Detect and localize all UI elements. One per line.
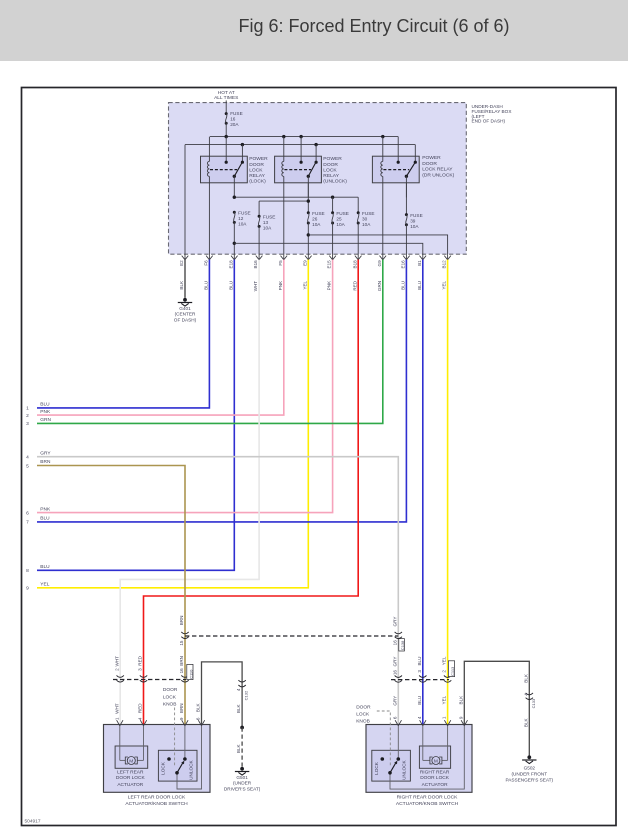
fuse 25 10A xyxy=(331,211,349,227)
svg-text:BRN: BRN xyxy=(179,616,184,626)
svg-text:(DR UNLOCK): (DR UNLOCK) xyxy=(422,173,454,179)
wire fuse39 down to pin E16 xyxy=(405,225,407,260)
svg-text:DOOR LOCK: DOOR LOCK xyxy=(420,775,450,781)
svg-text:39: 39 xyxy=(410,218,416,223)
svg-text:M: M xyxy=(129,758,133,764)
svg-text:PNK: PNK xyxy=(278,280,283,290)
svg-text:26: 26 xyxy=(312,217,318,222)
connector 4 C133 on right BLK wire xyxy=(526,693,533,695)
svg-text:RED: RED xyxy=(138,703,143,713)
pin 1 right actuator box entry xyxy=(444,720,450,726)
svg-text:RED: RED xyxy=(138,655,143,665)
label RIGHT REAR DOOR LOCK ACTUATOR/KNOB SWITCH xyxy=(396,795,459,807)
pin 6 left actuator box entry xyxy=(198,720,204,726)
svg-text:BLU: BLU xyxy=(40,564,50,570)
dashed knob linkage (right) xyxy=(377,711,391,767)
svg-text:3: 3 xyxy=(26,421,29,427)
connector 16 C138 on GRY wire xyxy=(395,632,402,634)
svg-text:10A: 10A xyxy=(336,222,345,227)
svg-text:1: 1 xyxy=(442,716,447,719)
svg-text:YEL: YEL xyxy=(442,280,447,289)
connector C110 pin 16 BRN xyxy=(181,675,188,677)
wire BRN into left switch unlock contact xyxy=(184,726,186,759)
wire feed down to fuse 13 xyxy=(258,201,260,216)
svg-text:BRN: BRN xyxy=(179,703,184,713)
ground G401 (CENTER OF DASH) xyxy=(183,298,187,302)
svg-text:LOCK: LOCK xyxy=(163,694,177,700)
svg-text:BLU: BLU xyxy=(204,281,209,290)
wire bus line 1 (fuse16 to relay coils/pins) xyxy=(210,136,398,138)
svg-text:15: 15 xyxy=(179,640,184,646)
svg-text:8: 8 xyxy=(26,568,29,574)
wire fuse25 down to pin E15 xyxy=(332,223,334,260)
svg-text:6: 6 xyxy=(392,716,397,719)
svg-text:10A: 10A xyxy=(238,221,247,226)
connector C110 pin 3 RED xyxy=(140,675,147,677)
node 5 BRN left margin label xyxy=(26,459,51,469)
svg-text:WHT: WHT xyxy=(253,281,258,292)
svg-text:F5: F5 xyxy=(278,260,283,266)
junction dots on bus 2 xyxy=(241,143,318,146)
node DOOR LOCK KNOB (right) xyxy=(356,704,371,724)
svg-text:YEL: YEL xyxy=(442,656,447,665)
pin 4 right actuator box entry xyxy=(420,720,426,726)
motor M1 left door lock actuator xyxy=(120,726,144,765)
right rear door lock actuator/knob switch box xyxy=(366,725,472,793)
svg-text:ACTUATOR: ACTUATOR xyxy=(422,782,448,788)
right motor sub-box xyxy=(419,746,450,768)
wire BLK from right switch pivot to pin 9 xyxy=(390,726,464,789)
svg-text:E16: E16 xyxy=(401,260,406,269)
svg-text:RELAY: RELAY xyxy=(323,173,339,179)
ground G502 (UNDER FRONT PASSENGER'S SEAT) xyxy=(527,755,531,759)
wire fuse12 output bus to pin B1 xyxy=(233,222,235,259)
svg-text:C132: C132 xyxy=(243,690,248,700)
svg-text:LOCK: LOCK xyxy=(374,761,379,775)
connector label C138 xyxy=(399,639,405,651)
svg-text:2: 2 xyxy=(26,413,29,419)
pin F6 (BLU) at fuse box edge xyxy=(204,256,213,290)
node 7 BLU left margin label xyxy=(26,516,50,526)
connector C113 pin 16 GRY xyxy=(395,676,402,678)
wire BLK pin E2 to ground G401 xyxy=(184,260,186,298)
wire BRN left wire 5 to left actuator pin 9 xyxy=(37,466,185,726)
svg-text:G401: G401 xyxy=(179,306,191,311)
ground G501 (UNDER DRIVER'S SEAT) xyxy=(240,767,244,771)
right switch S2 lock/unlock xyxy=(374,757,406,780)
relay: POWER DOOR LOCK RELAY (UNLOCK) xyxy=(275,137,348,260)
svg-text:10A: 10A xyxy=(263,225,272,230)
wire feed down to fuse 25 xyxy=(332,197,334,213)
wire fuse26 output bus to pin B12 xyxy=(307,223,309,260)
pin 9 right actuator box entry xyxy=(461,720,467,726)
svg-text:ACTUATOR/KNOB SWITCH: ACTUATOR/KNOB SWITCH xyxy=(125,801,188,807)
wire BLU pin E18 to left wire 8 xyxy=(37,260,234,571)
node 3 GRN left margin label xyxy=(26,417,51,427)
svg-text:DOOR: DOOR xyxy=(356,704,371,710)
svg-text:GRN: GRN xyxy=(377,281,382,291)
svg-text:KNOB: KNOB xyxy=(163,702,177,708)
svg-text:ACTUATOR: ACTUATOR xyxy=(117,782,143,788)
svg-text:POWER: POWER xyxy=(323,156,342,162)
svg-text:BLU: BLU xyxy=(40,402,50,408)
svg-text:GRN: GRN xyxy=(40,417,51,423)
svg-text:YEL: YEL xyxy=(442,695,447,704)
wire BLK right actuator pin 9 to ground G502 xyxy=(464,661,529,757)
svg-text:PNK: PNK xyxy=(327,280,332,290)
wire relay1 output to fuse25/fuse30 feed line xyxy=(234,196,358,198)
wire GRN pin G9 to left wire 3 xyxy=(37,260,383,424)
svg-text:BLU: BLU xyxy=(417,281,422,290)
svg-text:3: 3 xyxy=(417,670,422,673)
wire BLU pin E16 to left wire 7 xyxy=(37,260,406,522)
svg-text:BLU: BLU xyxy=(40,516,50,522)
connector 4 C132 on BLK wire xyxy=(238,680,245,682)
svg-text:(UNDER: (UNDER xyxy=(233,781,252,786)
svg-text:20A: 20A xyxy=(230,122,239,127)
svg-text:PNK: PNK xyxy=(40,409,51,415)
svg-text:16: 16 xyxy=(392,670,397,676)
svg-text:C110: C110 xyxy=(188,669,193,679)
svg-text:GRY: GRY xyxy=(40,450,51,456)
svg-text:OF DASH): OF DASH) xyxy=(174,318,197,323)
under-dash fuse/relay box label xyxy=(472,104,513,124)
svg-text:ALL TIMES: ALL TIMES xyxy=(214,95,238,101)
svg-text:10A: 10A xyxy=(312,222,321,227)
svg-text:LOCK: LOCK xyxy=(323,167,337,173)
svg-text:BLU: BLU xyxy=(417,657,422,666)
svg-text:GRY: GRY xyxy=(392,696,397,706)
svg-text:4: 4 xyxy=(417,716,422,719)
svg-text:1: 1 xyxy=(26,406,29,412)
pin F5 (PNK) at fuse box edge xyxy=(278,256,287,291)
svg-text:POWER: POWER xyxy=(249,156,268,162)
node 9 YEL left margin label xyxy=(26,582,50,592)
svg-text:LEFT REAR DOOR LOCK: LEFT REAR DOOR LOCK xyxy=(128,795,186,801)
svg-text:FUSE: FUSE xyxy=(362,211,375,216)
svg-text:PASSENGER'S SEAT): PASSENGER'S SEAT) xyxy=(505,778,553,783)
svg-text:F6: F6 xyxy=(204,260,209,266)
wire fuse16 to bus1 xyxy=(225,123,227,136)
title text xyxy=(0,0,628,61)
svg-text:B12: B12 xyxy=(442,260,447,269)
pin 9 left actuator box entry xyxy=(182,720,188,726)
pin 4 left actuator box entry xyxy=(140,720,146,726)
left switch S1 lock/unlock xyxy=(161,757,194,780)
svg-text:4: 4 xyxy=(138,717,143,720)
connector label C110 xyxy=(187,664,193,679)
svg-text:FUSE: FUSE xyxy=(263,215,276,220)
pin B16 (WHT) at fuse box edge xyxy=(253,256,262,292)
svg-text:C113: C113 xyxy=(450,666,455,676)
connector C113 dashed line xyxy=(391,679,449,681)
fuse 13 10A xyxy=(258,215,276,231)
junction dot BLK dashed start xyxy=(240,726,244,730)
wire fuse13 down to pin B16 xyxy=(258,226,260,259)
dashed wire BRN/GRY interconnect xyxy=(185,635,398,637)
junction dots on bus 1 xyxy=(225,135,385,138)
fuse 39 10A xyxy=(405,213,423,229)
svg-text:GRY: GRY xyxy=(392,617,397,627)
svg-text:DOOR LOCK: DOOR LOCK xyxy=(116,775,146,781)
svg-text:9: 9 xyxy=(26,586,29,592)
connector 15 on BRN wire xyxy=(181,632,188,634)
svg-text:2: 2 xyxy=(114,668,119,671)
fuse 26 10A xyxy=(307,211,325,227)
svg-text:BLK: BLK xyxy=(523,717,528,727)
wire GRY left wire 4 to right actuator pin 6 xyxy=(37,457,398,725)
svg-text:16: 16 xyxy=(392,640,397,646)
svg-text:E9: E9 xyxy=(302,260,307,266)
wire WHT pin B16 to left actuator pin 1 xyxy=(120,260,259,725)
wire PNK pin E15 to left wire 6 xyxy=(37,260,333,513)
svg-text:BLU: BLU xyxy=(401,281,406,290)
svg-text:LOCK: LOCK xyxy=(161,761,166,775)
svg-text:END OF DASH): END OF DASH) xyxy=(472,119,506,124)
node DOOR LOCK KNOB (left) xyxy=(163,687,178,707)
pin E18 (BLU) at fuse box edge xyxy=(228,256,237,290)
svg-text:UNLOCK: UNLOCK xyxy=(402,759,407,779)
svg-text:LOCK RELAY: LOCK RELAY xyxy=(422,167,453,173)
pin B18 (RED) at fuse box edge xyxy=(352,256,361,291)
svg-text:WHT: WHT xyxy=(114,703,119,714)
node 2 PNK left margin label xyxy=(26,409,51,419)
connector label C113 xyxy=(448,661,454,677)
label LEFT REAR DOOR LOCK ACTUATOR xyxy=(116,770,146,788)
label RIGHT REAR DOOR LOCK ACTUATOR xyxy=(420,770,450,788)
wire BLU pin F6 to left wire 1 xyxy=(37,260,209,408)
svg-text:16: 16 xyxy=(230,117,236,122)
svg-text:M: M xyxy=(434,758,438,764)
svg-text:BLK: BLK xyxy=(236,743,241,753)
wire fuse30 down to pin B18 xyxy=(357,223,359,260)
under-dash fuse/relay box xyxy=(169,103,467,255)
pin E15 (PNK) at fuse box edge xyxy=(327,256,336,291)
wire BLK from left switch pivot to pin 6 xyxy=(177,726,202,789)
svg-text:PNK: PNK xyxy=(40,506,51,512)
node HOT AT ALL TIMES xyxy=(214,90,238,101)
wire relay3 output down to fuse 39 xyxy=(405,183,407,215)
wire bus line 2 (relay contacts to E2 ground pin) xyxy=(185,144,415,146)
svg-text:BLK: BLK xyxy=(458,695,463,705)
svg-text:G9: G9 xyxy=(377,260,382,267)
pin E9 (YEL) at fuse box edge xyxy=(302,256,311,290)
connector C113 pin 3 BLU xyxy=(419,676,426,678)
left knob switch sub-box xyxy=(158,750,197,781)
dashed wire BLK to ground G501 xyxy=(241,728,243,769)
pin 6 right actuator box entry xyxy=(395,720,401,726)
svg-text:B16: B16 xyxy=(253,260,258,269)
svg-text:G502: G502 xyxy=(524,766,536,771)
node 4 GRY left margin label xyxy=(26,450,51,460)
svg-text:504917: 504917 xyxy=(25,819,41,825)
svg-text:5: 5 xyxy=(26,463,29,469)
svg-text:KNOB: KNOB xyxy=(356,719,370,725)
svg-text:BLK: BLK xyxy=(179,280,184,290)
svg-text:4: 4 xyxy=(523,693,528,696)
svg-text:B18: B18 xyxy=(352,260,357,269)
svg-text:16: 16 xyxy=(179,668,184,674)
node 8 BLU left margin label xyxy=(26,564,50,574)
svg-text:DRIVER'S SEAT): DRIVER'S SEAT) xyxy=(224,787,261,792)
node 6 PNK left margin label xyxy=(26,506,51,516)
svg-text:10A: 10A xyxy=(362,222,371,227)
svg-text:9: 9 xyxy=(179,717,184,720)
svg-text:DOOR: DOOR xyxy=(249,162,264,168)
svg-text:BLK: BLK xyxy=(196,702,201,712)
wire GRY into right switch unlock contact xyxy=(397,726,399,759)
connector C113 pin 2 YEL xyxy=(444,676,451,678)
svg-text:RIGHT REAR DOOR LOCK: RIGHT REAR DOOR LOCK xyxy=(397,795,459,801)
svg-text:6: 6 xyxy=(196,717,201,720)
svg-text:C133: C133 xyxy=(531,698,536,708)
svg-text:4: 4 xyxy=(26,455,29,461)
pin B1 (BLU) at fuse box edge xyxy=(417,256,426,290)
svg-text:WHT: WHT xyxy=(114,656,119,667)
wire BLK left actuator pin 6 to connector C132 xyxy=(202,662,243,728)
svg-text:(UNLOCK): (UNLOCK) xyxy=(323,179,347,185)
svg-text:7: 7 xyxy=(26,520,29,526)
wire YEL pin B12 to right actuator pin 1 xyxy=(447,260,449,725)
node 1 BLU left margin label xyxy=(26,402,50,412)
wire bus2 down to pin E2 xyxy=(184,145,186,260)
pin E2 (BLK) at fuse box edge xyxy=(179,256,188,290)
svg-text:DOOR: DOOR xyxy=(323,162,338,168)
svg-text:BLK: BLK xyxy=(523,673,528,683)
fuse 30 10A xyxy=(357,211,375,227)
svg-text:E2: E2 xyxy=(179,260,184,266)
pin E16 (BLU) at fuse box edge xyxy=(401,256,410,290)
svg-text:BLK: BLK xyxy=(236,703,241,713)
relay: POWER DOOR LOCK RELAY (LOCK) xyxy=(201,137,269,260)
wire YEL pin E9 to left wire 9 xyxy=(37,260,308,588)
wire hot feed into box xyxy=(225,100,227,113)
right knob switch sub-box xyxy=(372,750,411,781)
svg-text:BRN: BRN xyxy=(40,459,51,465)
svg-text:FUSE: FUSE xyxy=(410,213,423,218)
svg-text:FUSE: FUSE xyxy=(336,211,349,216)
svg-text:LEFT REAR: LEFT REAR xyxy=(117,770,144,776)
svg-text:6: 6 xyxy=(26,510,29,516)
fuse 16 20A xyxy=(225,111,243,127)
svg-text:E15: E15 xyxy=(327,260,332,269)
fuse 12 10A xyxy=(233,211,251,227)
svg-text:(UNDER FRONT: (UNDER FRONT xyxy=(511,772,547,777)
svg-text:30: 30 xyxy=(362,217,368,222)
svg-text:BRN: BRN xyxy=(179,656,184,666)
svg-text:1: 1 xyxy=(114,717,119,720)
svg-text:HOT AT: HOT AT xyxy=(218,90,235,96)
svg-text:DOOR: DOOR xyxy=(422,161,437,167)
wire relay2 output to fuse13/fuse26 feed line xyxy=(307,183,309,213)
svg-text:10A: 10A xyxy=(410,224,419,229)
svg-text:E18: E18 xyxy=(228,260,233,269)
svg-text:ACTUATOR/KNOB SWITCH: ACTUATOR/KNOB SWITCH xyxy=(396,801,459,807)
svg-text:LOCK: LOCK xyxy=(356,712,370,718)
pin 1 left actuator box entry xyxy=(117,720,123,726)
svg-text:C138: C138 xyxy=(400,640,405,650)
wire PNK pin F5 to left wire 2 xyxy=(37,260,284,416)
dashed knob linkage (left) xyxy=(174,708,176,767)
svg-text:BLU: BLU xyxy=(417,696,422,705)
svg-text:4: 4 xyxy=(236,688,241,691)
wire feed down to fuse 30 xyxy=(357,197,359,213)
wire RED pin B18 to left actuator pin 4 xyxy=(144,260,359,725)
svg-text:RELAY: RELAY xyxy=(249,173,265,179)
left rear door lock actuator/knob switch box xyxy=(104,725,211,793)
svg-text:BLU: BLU xyxy=(228,281,233,290)
relay: POWER DOOR LOCK RELAY (DR UNLOCK) xyxy=(372,137,454,260)
svg-text:GRY: GRY xyxy=(392,657,397,667)
svg-text:3: 3 xyxy=(138,668,143,671)
svg-text:RED: RED xyxy=(352,280,357,290)
svg-text:UNLOCK: UNLOCK xyxy=(189,759,194,779)
svg-text:FUSE: FUSE xyxy=(312,211,325,216)
connector C110 pin 2 WHT xyxy=(117,675,124,677)
svg-text:12: 12 xyxy=(238,216,244,221)
svg-text:9: 9 xyxy=(458,716,463,719)
pin G9 (GRN) at fuse box edge xyxy=(377,256,386,292)
svg-text:25: 25 xyxy=(336,217,342,222)
svg-text:LOCK: LOCK xyxy=(249,167,263,173)
motor M2 right door lock actuator xyxy=(423,726,448,765)
svg-text:DOOR: DOOR xyxy=(163,687,178,693)
svg-text:2: 2 xyxy=(442,670,447,673)
svg-text:RIGHT REAR: RIGHT REAR xyxy=(420,770,450,776)
svg-text:B1: B1 xyxy=(417,260,422,266)
pin B12 (YEL) at fuse box edge xyxy=(442,256,451,290)
svg-text:YEL: YEL xyxy=(302,280,307,289)
svg-text:FUSE: FUSE xyxy=(230,111,243,116)
svg-text:13: 13 xyxy=(263,220,269,225)
svg-text:FUSE: FUSE xyxy=(238,211,251,216)
label LEFT REAR DOOR LOCK ACTUATOR/KNOB SWITCH xyxy=(125,795,188,807)
left motor sub-box xyxy=(115,746,148,768)
title bar xyxy=(0,0,628,61)
svg-text:POWER: POWER xyxy=(422,155,441,161)
svg-text:YEL: YEL xyxy=(40,582,49,588)
connector C110 dashed line xyxy=(113,679,186,681)
svg-text:(CENTER: (CENTER xyxy=(175,312,196,317)
svg-text:G501: G501 xyxy=(236,775,248,780)
svg-text:(LOCK): (LOCK) xyxy=(249,179,266,185)
wire BLU pin B1 to right actuator pin 4 xyxy=(422,260,424,725)
